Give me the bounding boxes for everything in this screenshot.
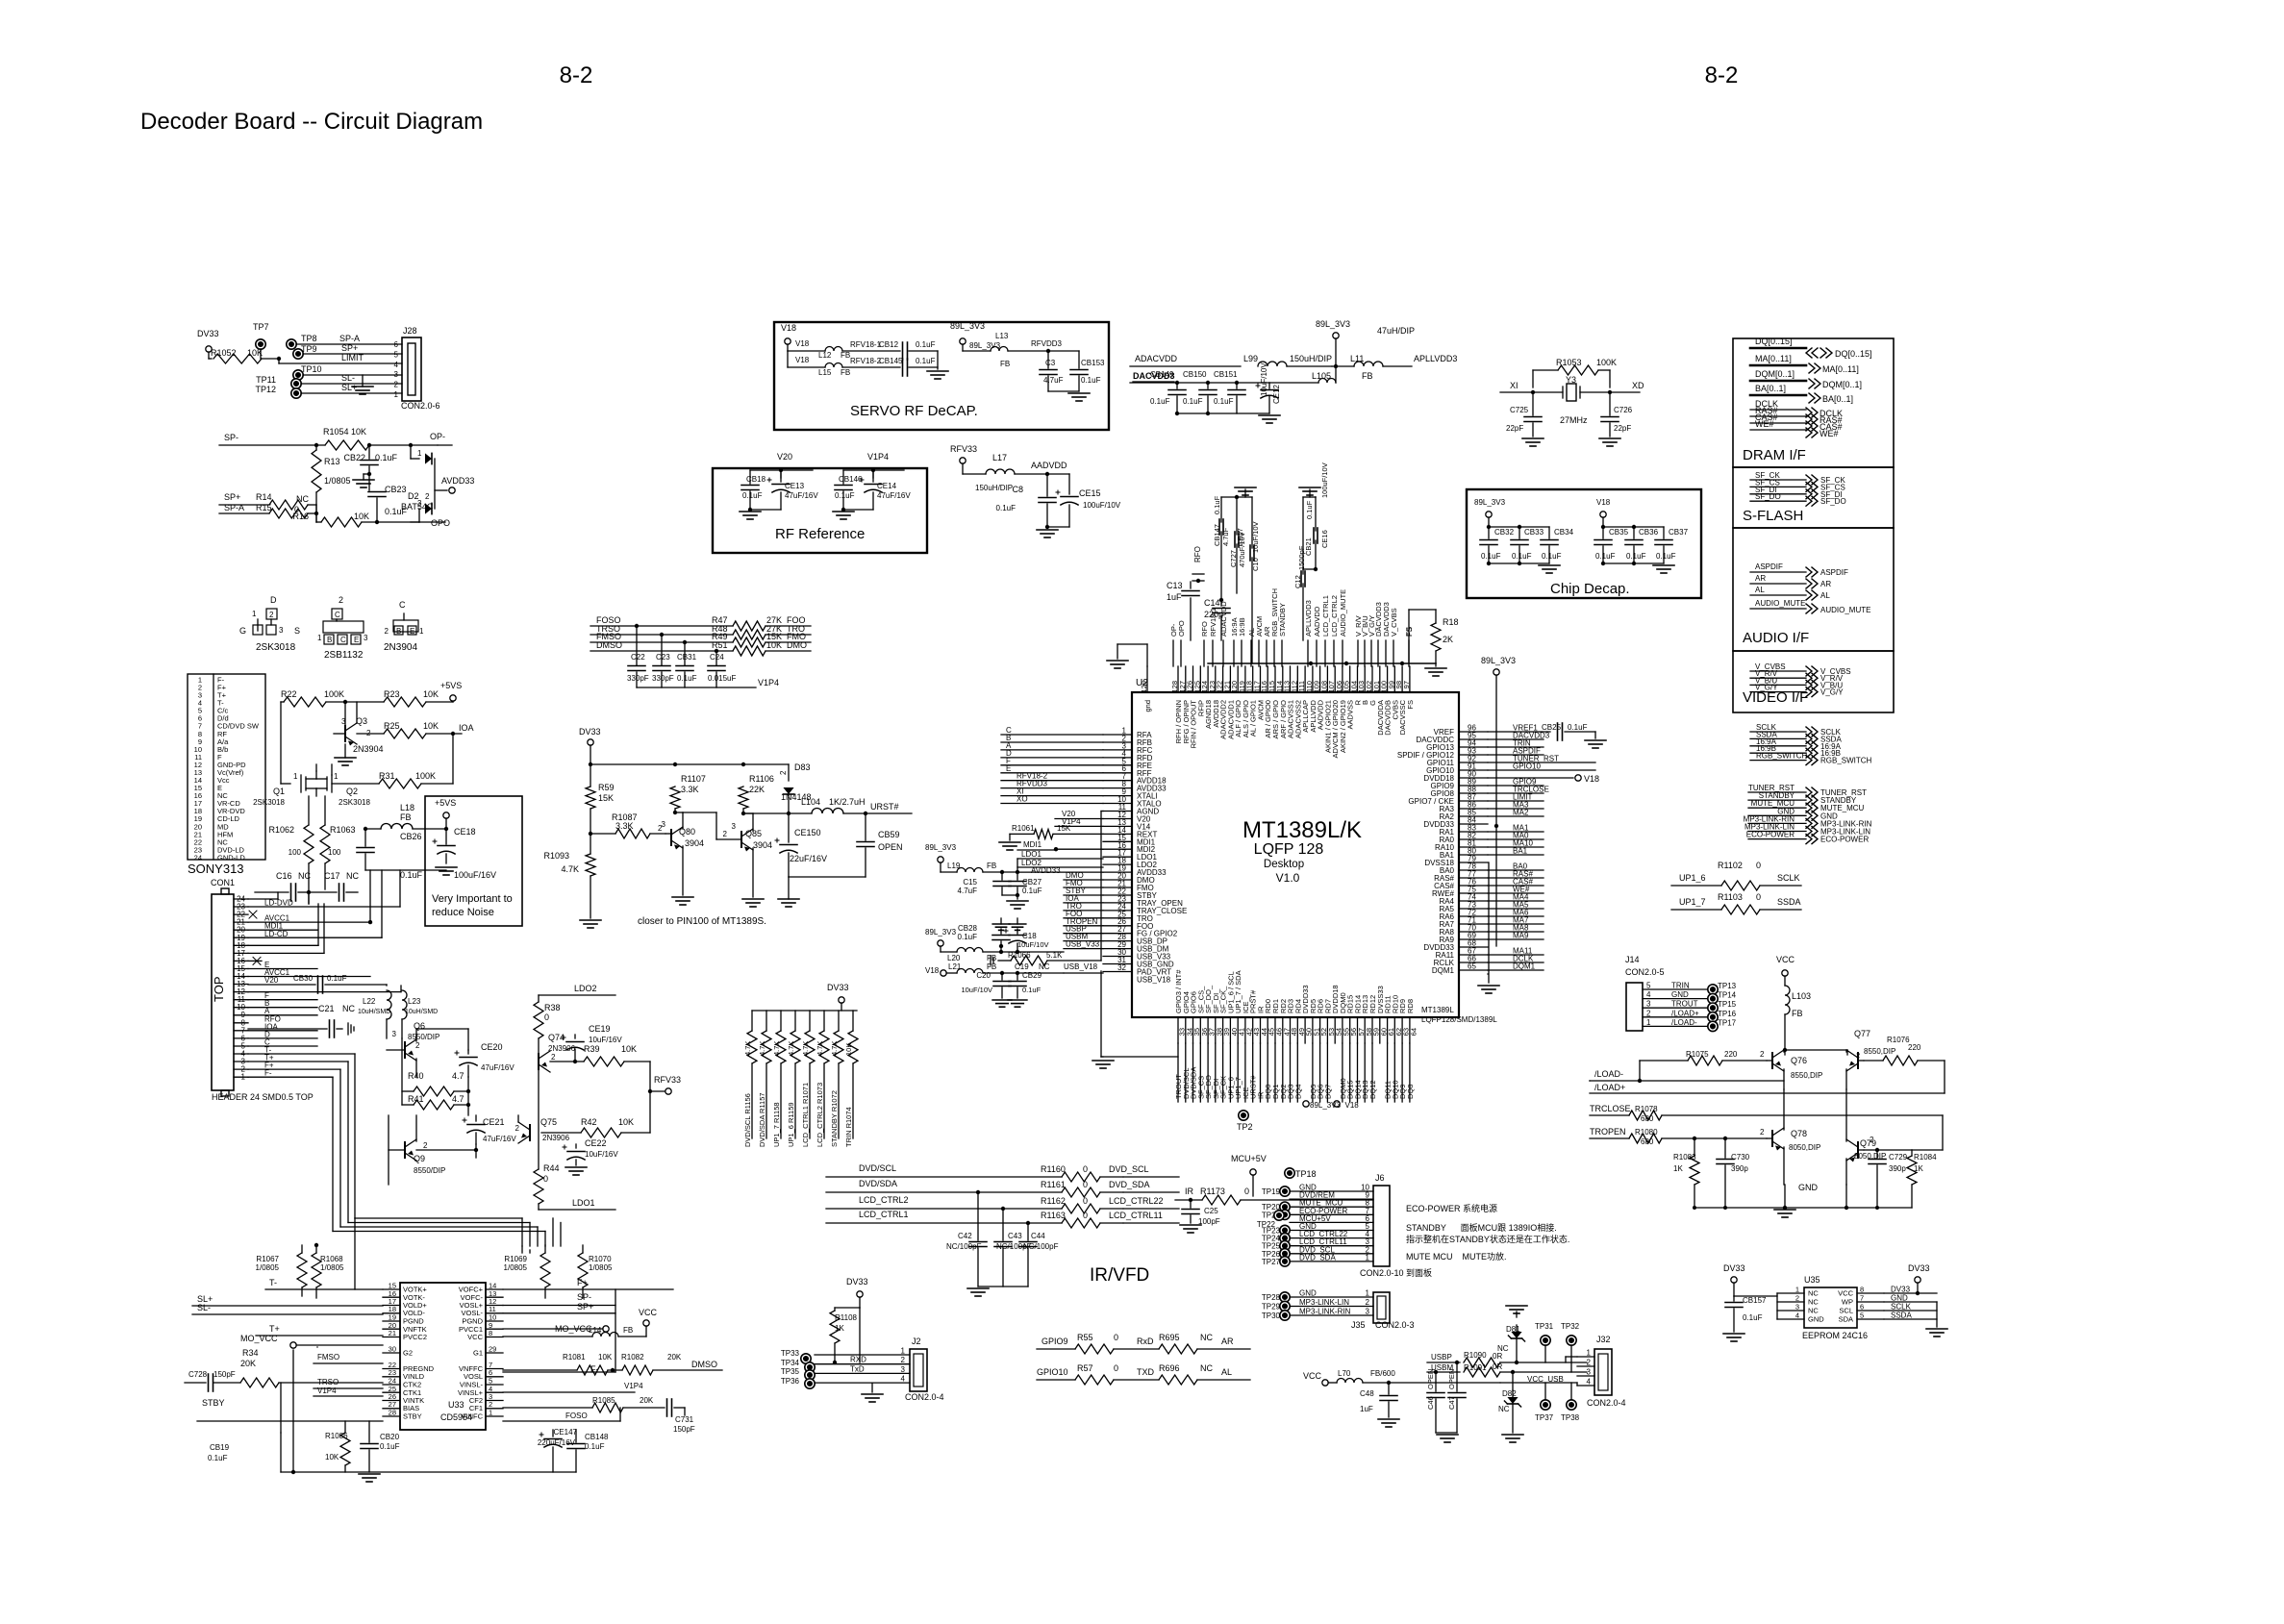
svg-text:USB_V33: USB_V33 — [1066, 940, 1100, 949]
svg-text:0: 0 — [1114, 1363, 1118, 1373]
svg-text:2: 2 — [385, 627, 389, 636]
svg-text:CB36: CB36 — [1639, 528, 1659, 537]
svg-text:V1P4: V1P4 — [317, 1387, 337, 1395]
svg-text:1: 1 — [1366, 1289, 1370, 1298]
pin 13 VOFC- — [486, 1296, 503, 1298]
svg-text:J6: J6 — [1375, 1173, 1385, 1183]
pin 7 AVDD18 — [1103, 780, 1132, 782]
svg-text:100uF/16V: 100uF/16V — [454, 870, 496, 880]
svg-text:0: 0 — [1244, 1187, 1249, 1196]
test point TP15 — [1708, 1003, 1718, 1012]
svg-text:LD-CD: LD-CD — [264, 930, 289, 938]
pin 41 UP1_7 / SDA — [1237, 1017, 1239, 1043]
svg-text:2: 2 — [1646, 1009, 1651, 1017]
wire MA9 — [1488, 938, 1544, 940]
svg-text:Q1: Q1 — [273, 787, 285, 796]
svg-text:RxD: RxD — [1137, 1337, 1154, 1346]
svg-text:TP2: TP2 — [1237, 1122, 1253, 1132]
svg-text:SL-: SL- — [197, 1303, 211, 1312]
svg-text:EEPROM 24C16: EEPROM 24C16 — [1802, 1331, 1868, 1340]
wire R22 left leg — [280, 702, 282, 784]
pin 8 VCC — [486, 1337, 503, 1338]
wire MA7 — [1488, 923, 1544, 925]
wire UP1_6 — [1229, 1043, 1231, 1102]
svg-text:V1P4: V1P4 — [758, 678, 779, 687]
svg-text:NC: NC — [1808, 1289, 1819, 1298]
pin 98 DACVSSC — [1401, 666, 1403, 692]
test point TP17 — [1708, 1021, 1718, 1031]
svg-text:RFV33: RFV33 — [950, 444, 977, 454]
svg-text:1uF: 1uF — [1167, 592, 1182, 602]
wire RFV33 — [650, 1090, 665, 1092]
svg-text:27MHz: 27MHz — [1560, 415, 1588, 425]
svg-text:4.7K: 4.7K — [561, 864, 579, 874]
svg-text:到面板: 到面板 — [1406, 1267, 1432, 1278]
svg-text:CB149: CB149 — [1150, 370, 1174, 379]
test point TP26 — [1280, 1249, 1290, 1259]
svg-text:22uF/16V: 22uF/16V — [790, 854, 827, 863]
test point TP30 — [1280, 1311, 1290, 1320]
pin 57 RD14 — [1357, 1017, 1359, 1043]
svg-text:AADVDD: AADVDD — [1313, 606, 1321, 637]
svg-text:C21: C21 — [318, 1004, 335, 1013]
pin 26 VINTK — [383, 1400, 400, 1402]
svg-text:CB23: CB23 — [385, 485, 407, 494]
wire bundle bottom rows to U33 area — [552, 1218, 554, 1246]
pin 70 RA8 — [1459, 931, 1488, 933]
svg-text:1/0805: 1/0805 — [504, 1263, 528, 1272]
svg-text:RFVDD3: RFVDD3 — [1031, 339, 1063, 348]
pin 114 ARF / GPIO — [1282, 666, 1284, 692]
svg-text:R1161: R1161 — [1041, 1180, 1066, 1189]
ground pair above CB28 — [992, 923, 1010, 925]
ground — [672, 896, 693, 898]
svg-text:/LOAD-: /LOAD- — [1594, 1069, 1623, 1079]
ground right — [1936, 1302, 1938, 1327]
svg-text:4.7uF: 4.7uF — [958, 887, 978, 895]
svg-text:XD: XD — [1632, 381, 1644, 390]
pin 99 CVBS — [1393, 666, 1395, 692]
wire bundle to pins 1-6 — [1001, 734, 1103, 736]
test point TP24 — [1280, 1233, 1290, 1242]
svg-text:CB151: CB151 — [1214, 370, 1238, 379]
svg-text:MA9: MA9 — [1513, 932, 1529, 940]
svg-text:4.7: 4.7 — [452, 1071, 464, 1081]
svg-text:C23: C23 — [656, 653, 670, 662]
svg-text:SL+: SL+ — [341, 383, 357, 392]
svg-text:8-2: 8-2 — [1705, 62, 1739, 88]
svg-text:LQFP 128: LQFP 128 — [1254, 841, 1324, 858]
svg-text:10uF/16V: 10uF/16V — [589, 1036, 622, 1044]
wire — [789, 876, 866, 878]
svg-text:TP31: TP31 — [1535, 1322, 1554, 1331]
svg-text:+5VS: +5VS — [440, 681, 462, 690]
svg-text:6: 6 — [394, 340, 399, 349]
ground — [1048, 390, 1079, 392]
svg-text:LDO1: LDO1 — [1021, 850, 1042, 859]
wire MA1 — [1488, 831, 1544, 833]
svg-text:7: 7 — [1860, 1294, 1864, 1303]
svg-text:DMO: DMO — [787, 640, 807, 650]
svg-text:CE12: CE12 — [1272, 384, 1281, 404]
pin 79 DVSS18 — [1459, 862, 1488, 863]
svg-text:MT1389L/K: MT1389L/K — [1242, 817, 1362, 843]
svg-text:DVD_SDA: DVD_SDA — [1299, 1253, 1336, 1262]
pin 101 DACVDDA — [1379, 666, 1381, 692]
wire BA1 — [1488, 854, 1544, 856]
svg-text:SP-: SP- — [224, 433, 238, 442]
resistor R1073 LCD_CTRL2 — [823, 1011, 825, 1031]
ground — [978, 1286, 1028, 1287]
svg-text:3: 3 — [279, 626, 284, 635]
svg-text:UP1_7: UP1_7 — [1679, 897, 1706, 907]
svg-text:TP37: TP37 — [1535, 1413, 1554, 1422]
svg-text:32: 32 — [1117, 963, 1126, 972]
svg-text:AVDD33: AVDD33 — [1031, 866, 1061, 875]
svg-text:DV33: DV33 — [197, 329, 219, 338]
svg-text:FB: FB — [841, 368, 850, 377]
svg-text:C730: C730 — [1731, 1153, 1750, 1162]
pin 65 DQM1 — [1459, 969, 1488, 971]
svg-text:2: 2 — [1760, 1128, 1765, 1137]
svg-text:89L_3V3: 89L_3V3 — [925, 843, 957, 852]
svg-text:220p: 220p — [1204, 610, 1223, 619]
ground — [344, 744, 346, 758]
svg-text:CB30: CB30 — [293, 974, 314, 983]
pin 3 RFC — [1103, 749, 1132, 751]
pin 44 IR — [1260, 1017, 1262, 1043]
pin 81 RA10 — [1459, 846, 1488, 848]
wire DQ2 — [1282, 1043, 1284, 1102]
wire RAS# — [1488, 877, 1544, 879]
section box VIDEO I/F — [1733, 651, 1894, 712]
pin 39 SF_CK_ — [1222, 1017, 1224, 1043]
svg-text:10uF/10V: 10uF/10V — [1260, 362, 1268, 396]
svg-text:3904: 3904 — [685, 838, 704, 848]
svg-text:FB: FB — [400, 812, 412, 822]
svg-text:4.7K: 4.7K — [830, 1041, 839, 1056]
svg-text:0.1uF: 0.1uF — [742, 491, 763, 500]
pin 117 AVCM — [1260, 666, 1262, 692]
svg-text:0.1uF: 0.1uF — [996, 504, 1017, 512]
pin 21 PVCC2 — [383, 1337, 400, 1338]
svg-text:0.1uF: 0.1uF — [1081, 376, 1101, 385]
svg-text:1: 1 — [252, 610, 257, 618]
svg-text:R25: R25 — [384, 721, 400, 731]
svg-text:LCD_CTRL1: LCD_CTRL1 — [859, 1210, 909, 1219]
pin 5 SDA — [1857, 1318, 1884, 1320]
svg-text:T+: T+ — [269, 1324, 280, 1334]
svg-text:CB27: CB27 — [1022, 878, 1042, 887]
svg-text:OPEN: OPEN — [878, 842, 903, 852]
svg-text:Q9: Q9 — [414, 1154, 425, 1163]
wire collector rail — [1785, 1049, 1847, 1051]
svg-text:TROUT: TROUT — [1671, 1000, 1698, 1009]
wire DQ10 — [1393, 1043, 1395, 1102]
pin 89 GPIO9 — [1459, 785, 1488, 787]
svg-text:SSDA: SSDA — [1777, 897, 1801, 907]
svg-text:CON2.0-3: CON2.0-3 — [1375, 1320, 1415, 1330]
test point TP14 — [1708, 993, 1718, 1003]
svg-text:RGB_SWITCH: RGB_SWITCH — [1820, 757, 1872, 765]
svg-text:RFO: RFO — [1200, 621, 1209, 637]
pin 54 DVDD18 — [1334, 1017, 1336, 1043]
svg-text:0: 0 — [1114, 1333, 1118, 1342]
svg-text:D82: D82 — [1502, 1389, 1517, 1398]
pin 7 WP — [1857, 1301, 1884, 1303]
svg-text:R14: R14 — [256, 492, 272, 502]
test point TP25 — [1280, 1241, 1290, 1251]
svg-text:CB145: CB145 — [879, 357, 903, 365]
svg-text:AUDIO_MUTE: AUDIO_MUTE — [1339, 589, 1347, 637]
ground — [1694, 1207, 1912, 1209]
svg-text:SP-A: SP-A — [339, 334, 360, 343]
ground — [1435, 663, 1437, 666]
pin 113 ADACVSS1 — [1290, 666, 1292, 692]
svg-text:R1076: R1076 — [1887, 1036, 1910, 1044]
svg-text:J28: J28 — [403, 326, 417, 336]
svg-text:CB146: CB146 — [839, 475, 863, 484]
svg-text:CB148: CB148 — [585, 1433, 609, 1441]
svg-text:CON1: CON1 — [211, 878, 235, 887]
svg-text:RD8: RD8 — [1406, 999, 1415, 1013]
svg-text:10uF/10V: 10uF/10V — [961, 986, 992, 994]
wire DQ1 — [1274, 1043, 1276, 1102]
svg-text:G1: G1 — [473, 1349, 483, 1358]
svg-text:2: 2 — [394, 381, 399, 389]
svg-text:6: 6 — [1860, 1303, 1864, 1312]
wire Q78 base network — [1694, 1138, 1695, 1156]
svg-text:1K/2.7uH: 1K/2.7uH — [829, 797, 866, 807]
svg-text:AUDIO_MUTE: AUDIO_MUTE — [1820, 606, 1870, 614]
svg-text:MA[0..11]: MA[0..11] — [1822, 364, 1859, 374]
test point TP16 — [1708, 1012, 1718, 1022]
pin 4 VINSL+ — [486, 1391, 503, 1393]
svg-text:DQ7: DQ7 — [1323, 1085, 1332, 1099]
svg-text:FMSO: FMSO — [317, 1353, 339, 1362]
pin 45 RD0 — [1267, 1017, 1268, 1043]
pin 14 REXT — [1103, 833, 1132, 835]
svg-text:HEADER 24 SMD0.5 TOP: HEADER 24 SMD0.5 TOP — [212, 1092, 314, 1102]
svg-text:1uF: 1uF — [1360, 1405, 1373, 1413]
svg-text:R1163: R1163 — [1041, 1211, 1066, 1220]
svg-text:CB26: CB26 — [400, 832, 422, 841]
svg-text:C16: C16 — [276, 871, 292, 881]
svg-text:3904: 3904 — [753, 840, 772, 850]
svg-text:C25: C25 — [1204, 1207, 1218, 1215]
svg-text:0.1uF: 0.1uF — [1595, 552, 1616, 561]
svg-text:2: 2 — [1870, 1136, 1874, 1144]
svg-text:R1093: R1093 — [543, 851, 569, 861]
svg-text:V18: V18 — [781, 323, 796, 333]
svg-text:FB: FB — [841, 351, 850, 360]
wire V1P4 — [637, 687, 756, 688]
svg-text:R22: R22 — [281, 689, 297, 699]
pin 69 RA9 — [1459, 938, 1488, 940]
resistor R1159 UP1_6 — [794, 1011, 796, 1031]
svg-text:0: 0 — [1083, 1180, 1088, 1189]
pin 51 RD5 — [1312, 1017, 1314, 1043]
ground — [565, 1166, 587, 1168]
pin 71 RA7 — [1459, 923, 1488, 925]
ground — [1599, 437, 1620, 439]
test point TP33 — [801, 1354, 811, 1363]
svg-text:AR: AR — [1221, 1337, 1234, 1346]
pin 2 NC — [1777, 1301, 1804, 1303]
pin 30 USB_V33 — [1103, 956, 1132, 958]
svg-text:GND: GND — [1671, 990, 1689, 999]
pin 2 RFB — [1103, 741, 1132, 743]
svg-text:3.3K: 3.3K — [681, 785, 699, 794]
svg-text:22K: 22K — [749, 785, 765, 794]
svg-text:4.7: 4.7 — [452, 1094, 464, 1104]
svg-text:DMSO: DMSO — [596, 640, 622, 650]
svg-text:TXD: TXD — [1137, 1367, 1155, 1377]
svg-text:APLLVDD3: APLLVDD3 — [1304, 600, 1313, 637]
svg-text:100K: 100K — [324, 689, 344, 699]
ground — [1177, 412, 1269, 414]
ground — [1436, 1432, 1457, 1434]
svg-text:C731: C731 — [675, 1415, 694, 1424]
svg-text:89L_3V3: 89L_3V3 — [969, 341, 1001, 350]
svg-text:100uF/10V: 100uF/10V — [1320, 462, 1329, 498]
pin 2 CF1 — [486, 1408, 503, 1410]
svg-text:VCC: VCC — [639, 1308, 658, 1317]
svg-text:0: 0 — [1083, 1196, 1088, 1206]
svg-text:CB150: CB150 — [1183, 370, 1207, 379]
svg-text:DQ8: DQ8 — [1406, 1085, 1415, 1099]
wire VREF1 — [1488, 731, 1550, 733]
svg-text:R38: R38 — [544, 1003, 561, 1012]
section box SERVO RF DeCAP — [774, 322, 1109, 430]
svg-text:ECO-POWER: ECO-POWER — [1820, 836, 1869, 844]
svg-text:F+: F+ — [577, 1278, 588, 1287]
svg-text:CB29: CB29 — [1022, 971, 1042, 980]
pin 3 NC — [1777, 1310, 1804, 1312]
svg-text:MT1389L: MT1389L — [1421, 1006, 1454, 1014]
svg-text:LCD_CTRL2: LCD_CTRL2 — [859, 1195, 909, 1205]
svg-text:R1063: R1063 — [330, 825, 356, 835]
svg-text:CB20: CB20 — [380, 1433, 400, 1441]
svg-text:SCLK: SCLK — [1777, 873, 1800, 883]
test point TP28 — [1280, 1292, 1290, 1302]
pin 18 LDO2 — [1103, 863, 1132, 865]
svg-text:15K: 15K — [598, 793, 614, 803]
ground — [1585, 739, 1606, 741]
svg-text:VCC: VCC — [467, 1333, 483, 1341]
pin 9 PVCC1 — [486, 1328, 503, 1330]
svg-text:TP35: TP35 — [781, 1367, 800, 1376]
pin 16 VOTK- — [383, 1296, 400, 1298]
svg-text:DQM1: DQM1 — [1432, 966, 1455, 975]
ground IC bottom — [1100, 971, 1102, 1057]
svg-text:URST#: URST# — [870, 802, 899, 812]
svg-text:CE150: CE150 — [794, 828, 821, 837]
svg-text:0.1uF: 0.1uF — [400, 870, 423, 880]
svg-text:C48: C48 — [1360, 1389, 1374, 1398]
pin 17 LDO1 — [1103, 856, 1132, 858]
svg-text:WE#: WE# — [1820, 429, 1839, 438]
svg-text:AR: AR — [1755, 574, 1766, 583]
svg-text:3: 3 — [1366, 1308, 1370, 1316]
svg-text:L12: L12 — [818, 351, 832, 360]
pin 33 GPIO3 / INT# — [1177, 1017, 1179, 1043]
svg-text:DQ12: DQ12 — [1368, 1080, 1377, 1099]
wire left pins bus — [1776, 1293, 1778, 1319]
svg-text:GPIO9: GPIO9 — [1042, 1337, 1068, 1346]
pin 77 RAS# — [1459, 877, 1488, 879]
svg-text:2: 2 — [779, 770, 788, 775]
svg-text:Q78: Q78 — [1791, 1129, 1807, 1138]
pin 19 PGND — [383, 1320, 400, 1322]
pin 12 VOSL+ — [486, 1305, 503, 1307]
svg-text:V_CVBS: V_CVBS — [1390, 608, 1398, 637]
pin 11 VOSL- — [486, 1312, 503, 1314]
svg-text:R44: R44 — [543, 1163, 560, 1173]
section box DRAM I/F — [1733, 338, 1894, 467]
svg-text:100: 100 — [328, 848, 341, 857]
svg-text:C726: C726 — [1614, 406, 1633, 414]
wire GPIO10 — [1488, 769, 1595, 771]
svg-text:DVD_SCL: DVD_SCL — [1109, 1164, 1149, 1174]
svg-text:220: 220 — [1908, 1043, 1921, 1052]
ground — [843, 509, 873, 511]
ground — [927, 370, 948, 372]
svg-text:R1061: R1061 — [1012, 824, 1035, 833]
test point TP35 — [805, 1370, 815, 1380]
wire DQ7 — [1326, 1043, 1328, 1102]
pin 23 TRAY_OPEN — [1103, 902, 1132, 904]
svg-text:4: 4 — [901, 1375, 906, 1384]
svg-text:R1070: R1070 — [589, 1255, 612, 1263]
svg-text:C725: C725 — [1510, 406, 1529, 414]
svg-text:TP18: TP18 — [1295, 1169, 1317, 1179]
svg-text:47uF/16V: 47uF/16V — [483, 1135, 516, 1143]
ground — [1378, 1418, 1399, 1420]
svg-text:10K: 10K — [621, 1044, 637, 1054]
ground — [364, 473, 369, 475]
svg-text:8550,DIP: 8550,DIP — [1864, 1047, 1895, 1056]
svg-text:R695: R695 — [1159, 1333, 1180, 1342]
svg-text:V1P4: V1P4 — [624, 1382, 643, 1390]
pin 47 RD2 — [1282, 1017, 1284, 1043]
svg-text:CB22: CB22 — [343, 453, 365, 462]
wire MA8 — [1488, 931, 1544, 933]
svg-text:STANDBY: STANDBY — [1278, 603, 1287, 637]
svg-text:CON2.0-6: CON2.0-6 — [401, 401, 440, 411]
svg-text:SP+: SP+ — [577, 1302, 593, 1312]
pin 115 ARS / GPIO — [1274, 666, 1276, 692]
wire TRCLOSE — [1488, 792, 1544, 794]
ground — [1047, 526, 1069, 528]
ground — [1303, 496, 1316, 498]
test point TP23 — [1280, 1225, 1290, 1235]
wire DQ12 — [1371, 1043, 1373, 1102]
svg-text:R51: R51 — [712, 640, 728, 650]
wire XO — [1001, 803, 1103, 805]
svg-text:1: 1 — [417, 449, 422, 458]
svg-text:0.1uF: 0.1uF — [1022, 887, 1042, 895]
section box AUDIO I/F — [1733, 528, 1894, 651]
svg-text:J2: J2 — [912, 1337, 921, 1346]
IC gnd pin 129 — [1146, 666, 1148, 692]
power terminal V18 right — [1488, 777, 1573, 779]
svg-text:FB/600: FB/600 — [1370, 1369, 1395, 1378]
svg-text:GND: GND — [1891, 1294, 1908, 1303]
svg-text:TP34: TP34 — [781, 1359, 800, 1367]
svg-text:R1062: R1062 — [268, 825, 294, 835]
pin 13 V14 — [1103, 825, 1132, 827]
